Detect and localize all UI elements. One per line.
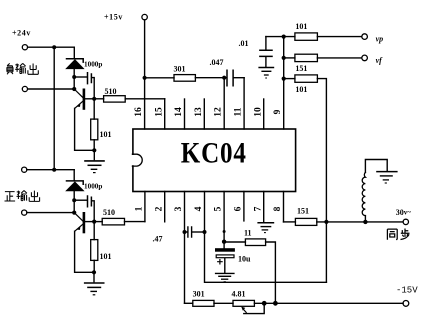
capacitor C3 .047 bbox=[224, 70, 244, 86]
pin 11 wire bbox=[243, 78, 245, 129]
node ground 1 bbox=[92, 148, 96, 152]
pin 3 wire bbox=[184, 192, 186, 233]
pin 1 wire bbox=[144, 192, 146, 222]
svg-text:4.81: 4.81 bbox=[232, 289, 246, 298]
node on +24v rail bbox=[52, 45, 56, 49]
svg-text:5: 5 bbox=[214, 206, 224, 211]
svg-text:10u: 10u bbox=[238, 255, 251, 264]
node base Q2 bbox=[72, 211, 76, 215]
svg-text:9: 9 bbox=[273, 109, 283, 114]
node bus mid bbox=[282, 56, 286, 60]
node bus top bbox=[282, 35, 286, 39]
pin 10 stub bbox=[263, 99, 265, 129]
svg-text:2: 2 bbox=[154, 206, 164, 211]
pin 6 stub bbox=[243, 192, 245, 221]
svg-text:-15V: -15V bbox=[396, 285, 418, 295]
resistor R11 301 bbox=[185, 300, 234, 306]
inductor L1 bbox=[362, 160, 387, 222]
node ground 2 bbox=[92, 270, 96, 274]
svg-text:13: 13 bbox=[194, 107, 204, 117]
wire D1 to base node bbox=[73, 69, 75, 89]
svg-text:11: 11 bbox=[234, 107, 244, 116]
capacitor C6 10u electrolytic bbox=[215, 242, 235, 273]
svg-text:vp: vp bbox=[376, 35, 384, 44]
svg-text:101: 101 bbox=[295, 85, 307, 94]
node pot right bbox=[273, 301, 278, 306]
node pin4 cap bbox=[203, 230, 207, 234]
resistor R4 101 bbox=[91, 240, 98, 261]
svg-text:301: 301 bbox=[193, 289, 205, 298]
svg-text:4: 4 bbox=[194, 206, 204, 211]
node left rail bottom bbox=[52, 168, 56, 172]
terminal vp bbox=[362, 34, 368, 40]
terminal +24v bbox=[22, 45, 27, 50]
terminal +15v bbox=[142, 14, 147, 19]
node bus low bbox=[282, 77, 286, 81]
node pin5 small bbox=[223, 230, 226, 233]
node pin3 cap bbox=[183, 230, 187, 234]
wire pin4 down-link bbox=[205, 232, 327, 282]
label 同步 bbox=[387, 229, 409, 240]
svg-text:101: 101 bbox=[295, 22, 307, 31]
capacitor C5 47 bbox=[185, 227, 205, 237]
wire diode D2 feed bbox=[73, 170, 75, 180]
resistor R10 151 bbox=[284, 218, 404, 225]
node collector Q2 bbox=[92, 220, 96, 224]
ground G4 (C4) bbox=[258, 68, 274, 79]
capacitor C2 bbox=[74, 196, 94, 222]
ground G6 (C6) bbox=[215, 273, 235, 281]
wire pin3 down bbox=[184, 232, 186, 303]
resistor R1 510 bbox=[94, 96, 165, 102]
node pin16 branch bbox=[143, 76, 147, 80]
resistor R9 11 bbox=[224, 239, 275, 303]
wire rail2 horizontal bbox=[27, 169, 74, 171]
svg-text:.047: .047 bbox=[210, 58, 224, 67]
transistor Q2 bbox=[74, 213, 94, 273]
label 负输出 bbox=[7, 63, 38, 74]
svg-text:12: 12 bbox=[214, 107, 224, 117]
svg-text:6: 6 bbox=[234, 206, 244, 211]
ground G2 bbox=[84, 272, 105, 295]
terminal -15V bbox=[403, 301, 409, 307]
capacitor C4 .01 bbox=[260, 37, 272, 67]
svg-text:7: 7 bbox=[253, 206, 263, 211]
pin 13 stub bbox=[203, 99, 205, 129]
svg-text:101: 101 bbox=[100, 252, 112, 261]
resistor R6 101 bbox=[295, 33, 362, 40]
node inductor bottom bbox=[363, 220, 367, 224]
wire base 1 bbox=[28, 88, 74, 90]
svg-text:510: 510 bbox=[105, 87, 117, 96]
svg-text:.47: .47 bbox=[153, 235, 163, 244]
wire pin16 +15v bbox=[144, 20, 146, 129]
svg-text:301: 301 bbox=[174, 64, 186, 73]
svg-text:16: 16 bbox=[134, 107, 144, 117]
pin 8 wire bbox=[283, 192, 285, 222]
svg-text:8: 8 bbox=[273, 206, 283, 211]
wire diode D1 feed bbox=[73, 47, 75, 58]
svg-text:v~: v~ bbox=[404, 209, 412, 217]
svg-text:30: 30 bbox=[396, 208, 404, 217]
resistor R7 bbox=[284, 54, 362, 61]
resistor R8 151 bbox=[284, 75, 327, 282]
node base Q1 bbox=[72, 87, 76, 91]
svg-text:101: 101 bbox=[100, 130, 112, 139]
IC U1 KC04 body bbox=[132, 129, 296, 192]
transistor Q1 bbox=[74, 89, 94, 150]
resistor R5 301 bbox=[147, 75, 225, 82]
node capacitor C2 tap bbox=[72, 198, 76, 202]
terminal vf bbox=[362, 55, 368, 61]
label 正输出 bbox=[5, 191, 40, 202]
svg-text:151: 151 bbox=[297, 207, 309, 216]
svg-text:10: 10 bbox=[253, 107, 263, 117]
label 30v~ bbox=[396, 208, 412, 217]
ground G3 (pin7) bbox=[257, 223, 274, 233]
wire R2 feed bbox=[93, 99, 95, 119]
wire R4 to ground bbox=[93, 260, 95, 272]
potentiometer R12 481 bbox=[233, 300, 403, 313]
ground G1 bbox=[84, 150, 105, 172]
pin 14 stub bbox=[184, 99, 186, 129]
svg-text:.01: .01 bbox=[239, 39, 249, 48]
node capacitor C1 tap bbox=[72, 75, 76, 79]
diode D2 bbox=[66, 181, 84, 191]
svg-text:1000p: 1000p bbox=[84, 61, 102, 69]
wire +24v horizontal bbox=[28, 46, 75, 48]
node sync cross bbox=[324, 220, 328, 224]
capacitor C1 bbox=[74, 73, 94, 99]
terminal sync 30v bbox=[403, 219, 408, 224]
svg-text:+15v: +15v bbox=[104, 13, 123, 22]
ground G5 (L1) bbox=[376, 172, 397, 183]
wire C4 to bus bbox=[266, 36, 295, 38]
svg-text:15: 15 bbox=[154, 107, 164, 117]
pin 7 wire bbox=[263, 192, 265, 222]
terminal 负输出 base bbox=[22, 86, 27, 91]
terminal 正输出 base bbox=[22, 210, 27, 215]
wire D2 to base node bbox=[73, 191, 75, 213]
svg-text:3: 3 bbox=[174, 206, 184, 211]
svg-text:+24v: +24v bbox=[12, 29, 31, 38]
node collector Q1 bbox=[92, 97, 96, 101]
svg-text:151: 151 bbox=[295, 64, 307, 73]
wire vertical left rail bbox=[53, 47, 55, 170]
pin 2 stub bbox=[164, 192, 166, 222]
svg-text:510: 510 bbox=[103, 208, 115, 217]
svg-text:14: 14 bbox=[174, 107, 184, 117]
resistor R3 510 bbox=[94, 218, 145, 225]
wire base 2 bbox=[27, 212, 74, 214]
pin 4 wire bbox=[204, 192, 206, 233]
svg-text:11: 11 bbox=[244, 229, 252, 238]
svg-text:KC04: KC04 bbox=[181, 137, 247, 169]
diode D1 bbox=[66, 59, 84, 69]
svg-text:1: 1 bbox=[135, 206, 145, 211]
pin 5 wire bbox=[223, 192, 225, 242]
node pin12 bbox=[222, 76, 226, 80]
resistor R2 101 bbox=[91, 119, 98, 140]
pin 9 wire bbox=[283, 37, 285, 129]
terminal +24v rail 2 bbox=[22, 167, 27, 172]
wire R2 to ground bbox=[93, 140, 95, 151]
pin 12 wire bbox=[223, 78, 225, 129]
svg-text:1000p: 1000p bbox=[84, 183, 102, 191]
wire R4 feed bbox=[93, 222, 95, 240]
node pot left bbox=[262, 301, 267, 306]
pin 15 stub bbox=[164, 99, 166, 129]
node pin5 cap10u bbox=[222, 240, 226, 244]
